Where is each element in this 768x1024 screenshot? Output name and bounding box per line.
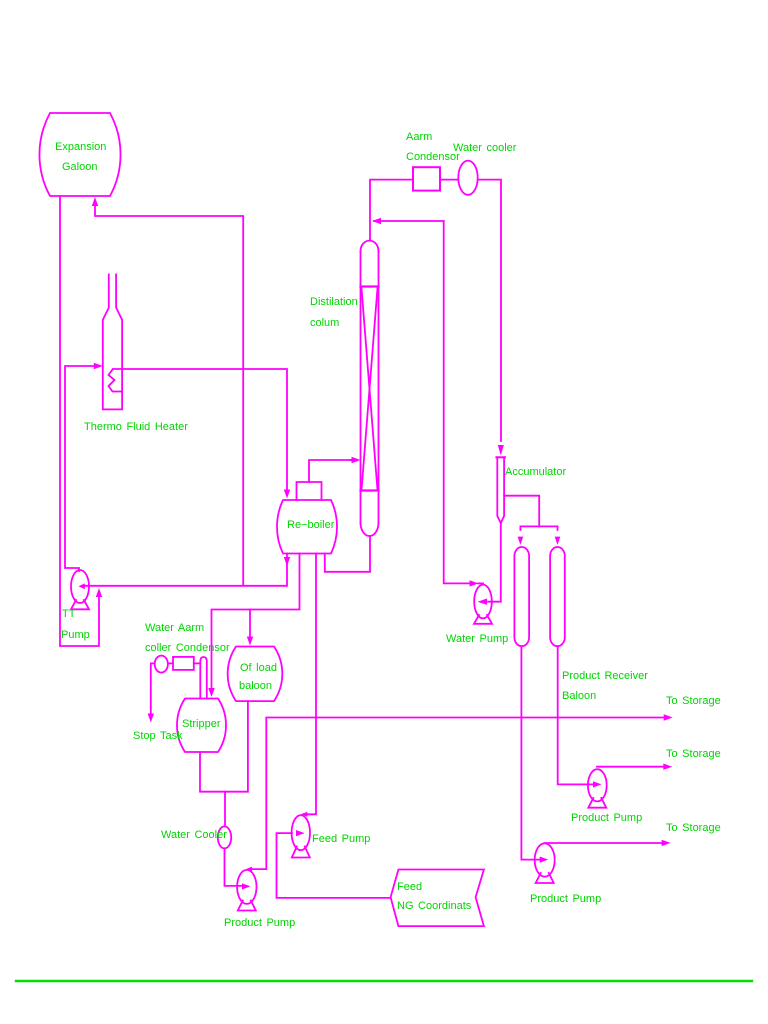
- wire: receiver 1 outlet to product pump 3: [521, 646, 544, 859]
- wire: product pump 2 discharge to storage: [597, 766, 668, 768]
- wire: column bottoms return to re-boiler: [325, 536, 370, 572]
- wire: accumulator side outlet to receiver header: [504, 496, 539, 527]
- arrow: right to storage 1: [664, 714, 673, 720]
- svg-text:Of load: Of load: [240, 662, 277, 674]
- pump: TT pump base: [71, 600, 89, 609]
- pump: water pump base: [474, 615, 492, 624]
- vessel: accumulator body: [497, 457, 504, 523]
- arrow: down into receiver balloon 2: [555, 537, 561, 545]
- pump: product pump 2 base: [588, 798, 606, 808]
- svg-text:Product Pump: Product Pump: [571, 812, 642, 824]
- arrow: right to storage 3: [662, 840, 671, 846]
- wire: branch down to of-load balloon: [249, 610, 251, 641]
- wire: balloon left outlet down: [60, 196, 99, 646]
- banner: feed NG coordinats flag: [391, 870, 484, 927]
- svg-text:Galoon: Galoon: [62, 161, 97, 173]
- pump: product pump 3 base: [536, 873, 554, 883]
- wire: stop task drain: [151, 663, 155, 714]
- arrow: left on feed pump top line: [301, 812, 307, 817]
- wire: re-boiler bottoms to stripper / of-load balloon header: [212, 554, 300, 692]
- arrow: down into re-boiler top (thermo fluid): [284, 490, 290, 499]
- wire: re-boiler line down to feed pump top: [303, 554, 316, 815]
- column: bottom tray: [361, 489, 379, 491]
- arrow: down into accumulator: [498, 445, 504, 456]
- arrow: left into TT pump: [79, 583, 85, 589]
- wire: receiver 2 outlet to product pump 2: [558, 646, 597, 784]
- arrow: down on stop task drain: [148, 714, 154, 723]
- svg-text:To Storage: To Storage: [666, 822, 721, 834]
- svg-text:Feed: Feed: [397, 881, 422, 893]
- arrow: up into pump suction line from balloon leg: [96, 588, 102, 597]
- arrow: down on re-boiler thermo return: [284, 557, 290, 566]
- wire: reflux line with arrow to column top: [374, 220, 444, 222]
- arrow: right into product pump 1: [242, 883, 251, 889]
- svg-text:Baloon: Baloon: [562, 690, 596, 702]
- wire: reflux down to water pump: [444, 221, 473, 583]
- vessel: Expansion Galoon: [39, 113, 120, 196]
- arrow: up into expansion balloon: [92, 197, 98, 206]
- wire: water cooler to accumulator riser: [478, 180, 501, 441]
- arrow: left on reflux line at column top: [372, 218, 381, 224]
- cooler: water cooler circle: [458, 161, 477, 195]
- arrow: down into receiver balloon 1: [518, 537, 524, 545]
- column: bottom dome: [361, 523, 379, 536]
- wire: accumulator bottom to water pump: [488, 523, 501, 602]
- svg-text:Water Pump: Water Pump: [446, 633, 508, 645]
- svg-text:NG Coordinats: NG Coordinats: [397, 900, 472, 912]
- cooler: water cooler bottom circle: [218, 826, 231, 848]
- wire: receiver header: [520, 526, 557, 530]
- vessel: re-boiler neck: [297, 482, 322, 500]
- column: packing X left diagonal: [362, 288, 378, 490]
- arrow: right into feed pump: [296, 830, 305, 836]
- svg-text:To Storage: To Storage: [666, 748, 721, 760]
- arrow: right into heater bottle: [94, 363, 103, 369]
- svg-text:Stripper: Stripper: [182, 718, 221, 730]
- arrow: right into product pump 2: [593, 781, 602, 787]
- svg-text:Thermo Fluid Heater: Thermo Fluid Heater: [84, 421, 188, 433]
- pump: product pump 3 circle: [535, 843, 555, 876]
- wire: re-boiler vapour line to column: [309, 460, 355, 482]
- svg-text:Expansion: Expansion: [55, 141, 106, 153]
- wire: condensor to water cooler: [440, 179, 458, 181]
- svg-text:Feed Pump: Feed Pump: [312, 833, 370, 845]
- arrow: right into water pump top: [470, 580, 479, 586]
- vessel: stripper barrel: [177, 699, 226, 753]
- pipe: stripper vent pipe: [200, 657, 207, 699]
- wire: re-boiler thermo return to TT pump: [85, 554, 287, 586]
- svg-text:To Storage: To Storage: [666, 695, 721, 707]
- wire: water cooler to product pump 1: [225, 848, 246, 886]
- wire: product pump 3 discharge to storage: [545, 842, 667, 844]
- wire: balloon right outlet to x243 riser: [95, 204, 243, 586]
- column: packing X right diagonal: [362, 288, 378, 490]
- svg-text:Stop Task: Stop Task: [133, 730, 183, 742]
- pump: feed pump circle: [292, 815, 310, 850]
- wire: feed line from banner to feed pump: [277, 833, 391, 898]
- arrow: left into water pump: [478, 599, 488, 605]
- heating element zigzag inside bottle: [109, 370, 122, 392]
- wire: column overhead to condensor: [370, 180, 413, 241]
- wire: into water pump top: [478, 582, 483, 584]
- svg-text:Pump: Pump: [61, 629, 90, 641]
- pump: product pump 1 circle: [237, 870, 256, 904]
- pump: product pump 2 circle: [588, 769, 607, 801]
- column: distillation column walls: [361, 252, 379, 523]
- pump: water pump circle: [474, 585, 492, 619]
- wire: stripper bottoms to water cooler junction: [200, 701, 248, 792]
- arrow: down into stripper top: [208, 688, 214, 697]
- wire: heater loop left side (pump discharge up to heater inlet): [65, 366, 97, 571]
- svg-text:Product Receiver: Product Receiver: [562, 670, 648, 682]
- column: top dome: [361, 241, 379, 252]
- wire: heater outlet to re-boiler riser: [113, 369, 287, 495]
- svg-text:Water Cooler: Water Cooler: [161, 829, 227, 841]
- condensor: small water/aarm condensor box: [173, 657, 194, 670]
- column: top tray: [361, 285, 379, 287]
- arrow: left on product pump 1 discharge: [246, 867, 252, 872]
- vessel: heater bottle: [103, 274, 122, 409]
- svg-text:baloon: baloon: [239, 680, 272, 692]
- svg-text:Re−boiler: Re−boiler: [287, 519, 335, 531]
- arrow: down into of-load balloon: [247, 637, 253, 646]
- arrow: right to storage 2: [663, 764, 672, 770]
- cooler: small circle: [155, 656, 168, 673]
- pump: feed pump base: [292, 847, 310, 858]
- condensor: Aarm condensor box: [413, 167, 440, 190]
- vessel: re-boiler barrel: [277, 500, 337, 554]
- svg-text:Product Pump: Product Pump: [530, 893, 601, 905]
- svg-text:Aarm: Aarm: [406, 131, 432, 143]
- vessel: of-load balloon barrel: [228, 647, 283, 702]
- vessel: product receiver balloon 2: [550, 547, 565, 646]
- svg-text:Accumulator: Accumulator: [505, 466, 566, 478]
- svg-text:TT: TT: [62, 608, 76, 620]
- svg-text:coller Condensor: coller Condensor: [145, 642, 230, 654]
- svg-text:Water cooler: Water cooler: [453, 142, 517, 154]
- wire: junction down through water cooler: [224, 792, 226, 827]
- wire: vent line through small condensor: [168, 662, 200, 664]
- vessel: accumulator cap: [496, 456, 505, 458]
- pump: product pump 1 base: [238, 901, 256, 911]
- pump: TT pump circle: [71, 570, 89, 603]
- vessel: product receiver balloon 1: [514, 547, 529, 646]
- border bottom green line: [16, 980, 752, 982]
- arrow: right into product pump 3: [540, 857, 549, 863]
- arrow: right into column (vapour from re-boiler): [352, 457, 361, 463]
- wire: product pump 1 riser and storage line 1: [251, 718, 668, 870]
- svg-text:colum: colum: [310, 317, 339, 329]
- svg-text:Water Aarm: Water Aarm: [145, 622, 204, 634]
- svg-text:Distilation: Distilation: [310, 296, 358, 308]
- wire: column feed arrow line stub: [350, 459, 355, 461]
- svg-text:Product Pump: Product Pump: [224, 917, 295, 929]
